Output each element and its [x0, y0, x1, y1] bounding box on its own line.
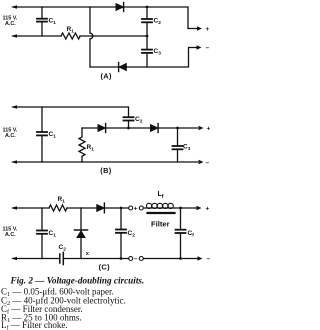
capacitor C2 (B): [124, 117, 134, 128]
junction dot C bottom left: [120, 257, 123, 260]
list line Lf: [1, 320, 68, 330]
label C1 (C): [49, 230, 57, 239]
label R1 (A): [67, 26, 75, 35]
label C3 (A): [154, 48, 162, 57]
input arrow C bottom: [11, 257, 17, 260]
diode D1 (C): [97, 203, 105, 213]
output arrow B plus: [199, 126, 204, 130]
diode D1 (B): [98, 124, 106, 133]
capacitor C1 (C): [37, 208, 47, 259]
caption Fig. 2: [10, 276, 145, 286]
terminal circle C top 2: [139, 206, 143, 210]
label C3 (B): [183, 144, 191, 153]
diode vertical (C): [75, 208, 88, 259]
label Filter: [151, 220, 170, 229]
wire B top rail: [13, 107, 129, 117]
svg-text:(B): (B): [100, 166, 111, 175]
label 115 V. A.C. (B): [3, 128, 18, 140]
label R1 (B): [87, 144, 95, 153]
label 115 V. A.C. (C): [3, 227, 18, 239]
junction dot B at C3: [176, 127, 179, 130]
capacitor Cf (C): [176, 208, 186, 259]
diode D2 (B): [151, 124, 159, 133]
label 115 V. A.C. (A): [3, 16, 18, 28]
choke core bar: [148, 212, 175, 214]
wire B middle rail: [82, 127, 198, 129]
label C1 (B): [49, 131, 57, 140]
input arrow A top: [11, 5, 17, 8]
diode D2 (A): [119, 63, 127, 72]
label C1 (A): [49, 18, 57, 27]
svg-text:Filter: Filter: [151, 220, 170, 229]
input arrow A bottom: [11, 34, 17, 37]
wire A bottom rail: [90, 48, 197, 68]
svg-text:Fig. 2 — Voltage-doubling circ: Fig. 2 — Voltage-doubling circuits.: [10, 276, 145, 286]
svg-text:–: –: [206, 45, 210, 52]
capacitor C3 (A): [142, 36, 152, 67]
capacitor C2 shunt (C): [116, 208, 126, 259]
capacitor C1 (A): [37, 7, 47, 36]
label minus C out: [207, 256, 211, 263]
list line C2: [1, 296, 126, 308]
svg-text:Lf — Filter choke.: Lf — Filter choke.: [1, 320, 68, 330]
output arrow A plus: [197, 26, 202, 30]
svg-text:–: –: [134, 256, 138, 263]
resistor R1 (B) vertical: [79, 128, 85, 162]
label plus C out: [206, 206, 210, 213]
svg-text:A.C.: A.C.: [5, 21, 16, 27]
svg-text:–: –: [207, 256, 211, 263]
input arrow C top: [11, 206, 17, 209]
svg-text:–: –: [206, 160, 210, 167]
input arrow B top: [11, 105, 17, 108]
terminal circle C bottom 2: [139, 257, 143, 261]
wire A top rail: [13, 7, 198, 29]
label (C): [99, 262, 110, 271]
svg-text:(C): (C): [99, 262, 110, 271]
label C2 series (C): [59, 244, 67, 253]
label C2 (B): [135, 116, 143, 125]
capacitor C2 series (C): [60, 253, 64, 265]
label C2 (A): [154, 18, 162, 27]
output arrow C plus: [197, 206, 202, 210]
label minus A: [206, 45, 210, 52]
svg-text:+: +: [207, 126, 211, 133]
capacitor C2 (A): [142, 7, 152, 35]
capacitor C1 (B): [37, 107, 47, 162]
label plus B: [207, 126, 211, 133]
output arrow B minus: [199, 160, 204, 164]
wire B bottom rail: [13, 161, 198, 163]
list line C1: [1, 287, 114, 299]
resistor R1 (A): [61, 33, 80, 39]
output arrow A minus: [197, 45, 202, 49]
label (A): [101, 72, 112, 81]
list line Cf: [1, 304, 83, 316]
output arrow C minus: [198, 256, 203, 260]
svg-text:+: +: [206, 206, 210, 213]
svg-text:A.C.: A.C.: [5, 232, 16, 238]
label Lf: [158, 191, 164, 200]
label Cf: [188, 230, 195, 239]
junction dot A top: [146, 6, 149, 9]
diode D1 (A): [116, 3, 124, 12]
input arrow B bottom: [11, 160, 17, 163]
wire A middle rail: [13, 35, 147, 37]
label plus A: [206, 26, 210, 33]
capacitor C3 (B): [173, 128, 183, 162]
label (B): [100, 166, 111, 175]
terminal circle C top 1: [129, 206, 133, 210]
label plus terminal C: [134, 206, 138, 213]
svg-text:(A): (A): [101, 72, 112, 81]
terminal circle C bottom 1: [129, 257, 133, 261]
junction dot C top left: [120, 207, 123, 210]
list line R1: [1, 313, 82, 325]
wire C top rail: [13, 207, 198, 209]
junction dot C top right: [179, 207, 182, 210]
label R1 (C): [58, 196, 66, 205]
svg-text:+: +: [134, 206, 138, 213]
svg-text:+: +: [206, 26, 210, 33]
junction dot B at C2: [127, 127, 130, 130]
inductor Lf choke: [147, 203, 174, 208]
junction dot A middle: [146, 35, 149, 38]
label x node: [86, 251, 90, 257]
junction dot C bottom right: [179, 257, 182, 260]
resistor R1 (C): [49, 205, 67, 211]
label minus terminal C: [134, 256, 138, 263]
wire C bottom rail: [13, 258, 197, 260]
label minus B: [206, 160, 210, 167]
svg-text:A.C.: A.C.: [5, 133, 16, 139]
wire A vertical branch with hop: [90, 7, 93, 67]
label C2 shunt (C): [128, 230, 136, 239]
